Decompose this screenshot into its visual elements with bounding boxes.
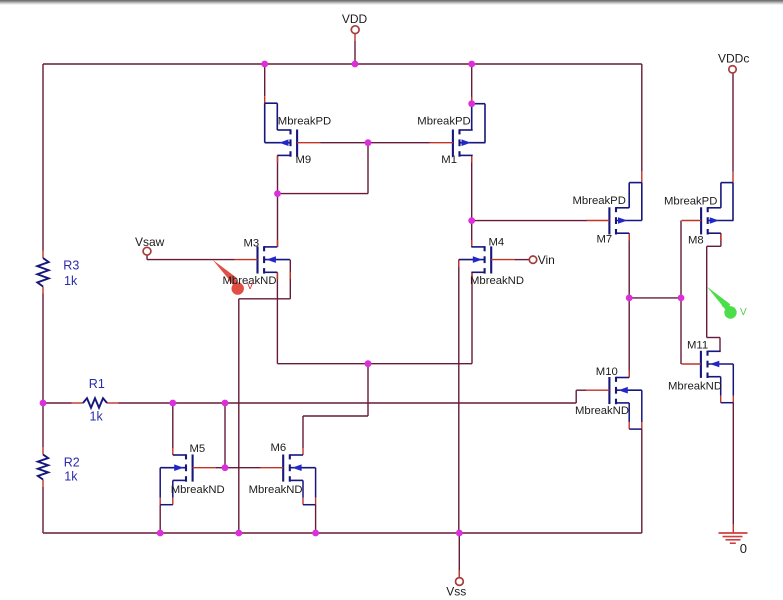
svg-text:R1: R1	[89, 377, 105, 391]
svg-text:1k: 1k	[64, 274, 78, 288]
svg-text:M5: M5	[190, 443, 206, 455]
svg-text:V: V	[740, 307, 747, 318]
svg-text:M11: M11	[687, 340, 708, 352]
svg-text:R3: R3	[63, 259, 79, 273]
svg-text:M1: M1	[441, 154, 457, 166]
svg-text:Vsaw: Vsaw	[135, 235, 165, 249]
svg-text:M7: M7	[597, 233, 613, 245]
svg-text:M6: M6	[271, 442, 287, 454]
svg-text:M10: M10	[596, 366, 618, 378]
svg-text:MbreakPD: MbreakPD	[417, 115, 470, 127]
svg-text:VDD: VDD	[342, 12, 368, 26]
svg-text:V: V	[247, 281, 254, 292]
svg-text:MbreakND: MbreakND	[171, 484, 225, 496]
svg-text:M9: M9	[296, 154, 312, 166]
svg-text:M4: M4	[489, 237, 505, 249]
svg-text:VDDc: VDDc	[718, 52, 749, 66]
svg-text:Vss: Vss	[446, 584, 466, 598]
svg-text:R2: R2	[64, 455, 80, 469]
svg-text:MbreakND: MbreakND	[470, 275, 524, 287]
svg-text:1k: 1k	[90, 410, 104, 424]
svg-text:MbreakPD: MbreakPD	[573, 195, 626, 207]
svg-text:1k: 1k	[64, 470, 78, 484]
svg-text:Vin: Vin	[538, 253, 555, 267]
svg-text:MbreakND: MbreakND	[249, 484, 303, 496]
svg-text:MbreakND: MbreakND	[668, 380, 722, 392]
svg-text:MbreakPD: MbreakPD	[278, 115, 331, 127]
svg-text:M8: M8	[688, 234, 704, 246]
svg-text:0: 0	[740, 541, 747, 556]
svg-text:MbreakND: MbreakND	[575, 405, 629, 417]
svg-text:M3: M3	[244, 238, 260, 250]
svg-text:MbreakPD: MbreakPD	[664, 195, 717, 207]
